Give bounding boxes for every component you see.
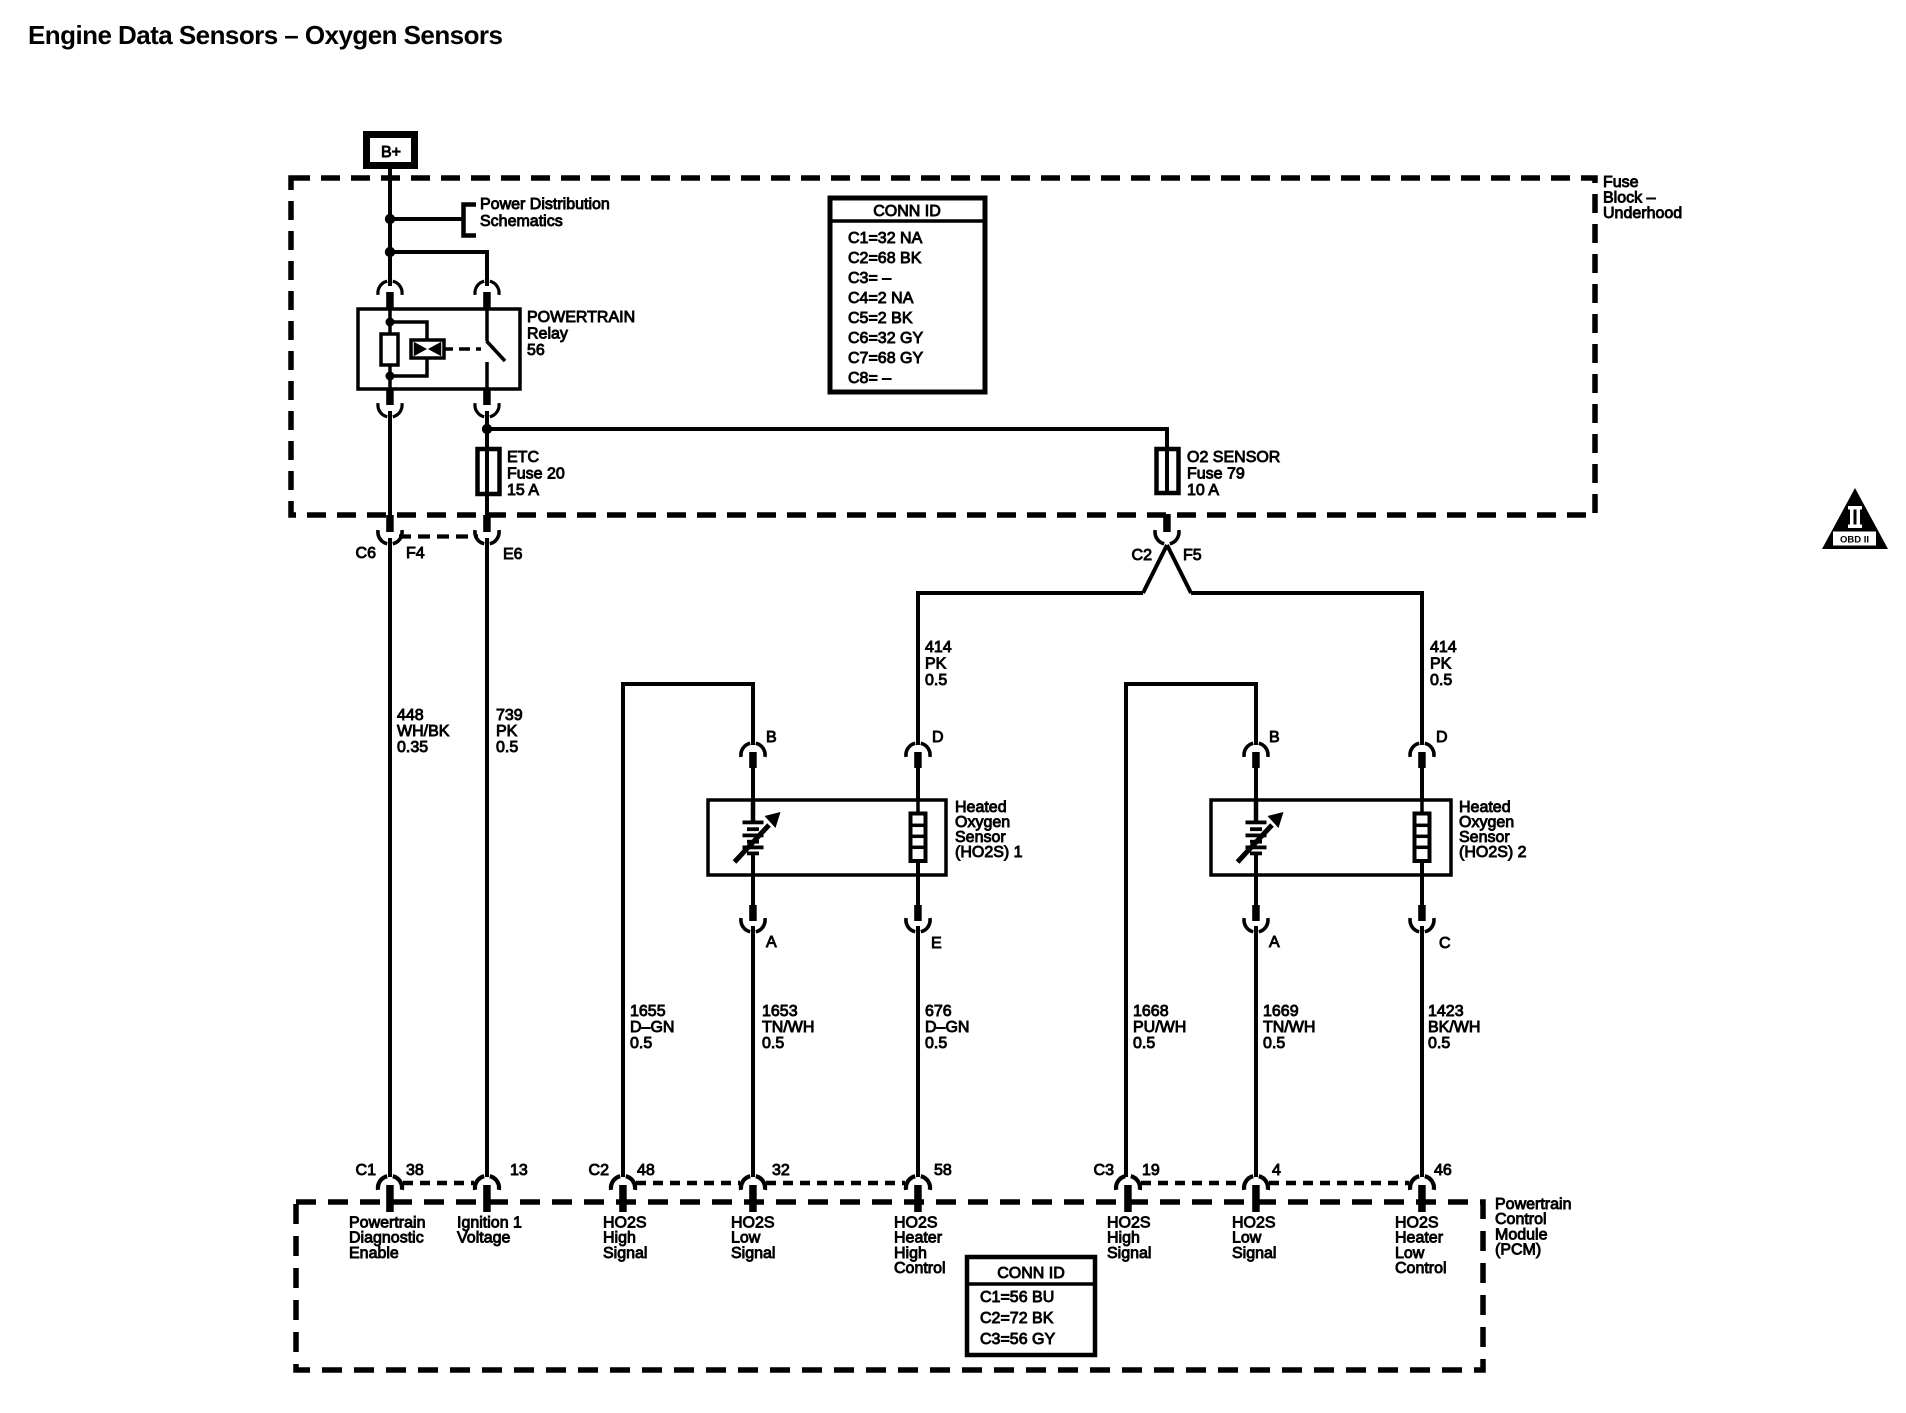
svg-text:C2=68 BK: C2=68 BK <box>848 250 922 267</box>
node relay coil bottom junction <box>386 372 395 381</box>
svg-text:C: C <box>1439 935 1451 952</box>
svg-text:Relay: Relay <box>527 326 568 343</box>
svg-text:Signal: Signal <box>1232 1245 1276 1262</box>
svg-text:(PCM): (PCM) <box>1495 1242 1541 1259</box>
in-line connector dashed link 48-32-58 <box>636 1181 740 1186</box>
wire relay coil output to connector C6 <box>388 411 392 517</box>
svg-text:0.5: 0.5 <box>1428 1035 1450 1052</box>
sensor Heated Oxygen Sensor HO2S2 box <box>1211 800 1451 875</box>
connector HO2S2 pin B <box>1244 743 1268 757</box>
svg-text:C3= –: C3= – <box>848 270 891 287</box>
connector HO2S1 pin A <box>751 875 755 907</box>
svg-text:C1=32 NA: C1=32 NA <box>848 230 923 247</box>
wire 414 PK to HO2S2 pin D <box>1191 593 1422 745</box>
connector HO2S1 pin B <box>741 743 765 757</box>
svg-text:1669: 1669 <box>1263 1003 1299 1020</box>
wire 414 PK to HO2S1 pin D <box>918 593 1143 745</box>
heater element HO2S1 <box>916 800 920 814</box>
svg-text:WH/BK: WH/BK <box>397 723 450 740</box>
table CONN ID fuse block underhood <box>830 198 985 392</box>
svg-text:0.5: 0.5 <box>1430 672 1452 689</box>
svg-text:PK: PK <box>496 723 518 740</box>
connector PCM pin 46 <box>1410 1176 1434 1190</box>
sensor element HO2S2 (variable voltage) <box>1254 800 1259 821</box>
svg-text:POWERTRAIN: POWERTRAIN <box>527 309 635 326</box>
svg-text:C2=72 BK: C2=72 BK <box>980 1310 1054 1327</box>
svg-text:1653: 1653 <box>762 1003 798 1020</box>
in-line connector dashed link C6-E6 <box>399 534 478 538</box>
connector HO2S2 pin D <box>1410 743 1434 757</box>
relay coil <box>411 340 444 358</box>
wire HO2S1 signal low to PCM <box>751 926 755 1177</box>
fuse block underhood dashed box <box>291 178 1595 515</box>
svg-text:C2: C2 <box>589 1162 610 1179</box>
svg-text:F5: F5 <box>1183 547 1202 564</box>
svg-text:Power Distribution: Power Distribution <box>480 196 610 213</box>
svg-text:Control: Control <box>1395 1260 1447 1277</box>
svg-text:38: 38 <box>406 1162 424 1179</box>
connector PCM pin 32 <box>741 1176 765 1190</box>
svg-text:E: E <box>931 935 942 952</box>
connector HO2S2 pin A <box>1254 875 1258 907</box>
svg-text:TN/WH: TN/WH <box>762 1019 814 1036</box>
table CONN ID PCM <box>967 1257 1095 1355</box>
svg-text:F4: F4 <box>406 545 425 562</box>
svg-text:A: A <box>1269 934 1280 951</box>
connector HO2S1 pin D <box>906 743 930 757</box>
svg-text:Engine Data Sensors – Oxygen S: Engine Data Sensors – Oxygen Sensors <box>28 20 502 50</box>
svg-text:C5=2 BK: C5=2 BK <box>848 310 913 327</box>
wire relay coil branch <box>388 310 392 334</box>
connector PCM pin 4 <box>1244 1176 1268 1190</box>
svg-text:Signal: Signal <box>603 1245 647 1262</box>
wire HO2S1 pin B branch <box>623 684 753 1177</box>
svg-text:B: B <box>1269 729 1280 746</box>
connector PCM pin 48 <box>611 1176 635 1190</box>
svg-text:414: 414 <box>925 639 952 656</box>
wire HO2S2 signal low to PCM <box>1254 926 1258 1177</box>
sensor element HO2S1 (variable voltage) <box>751 800 756 821</box>
node relay coil top junction <box>386 318 395 327</box>
svg-text:414: 414 <box>1430 639 1457 656</box>
svg-text:PK: PK <box>1430 656 1452 673</box>
svg-text:0.5: 0.5 <box>630 1035 652 1052</box>
svg-text:1655: 1655 <box>630 1003 666 1020</box>
connector E6 pin (ignition 1 voltage feed) <box>483 515 491 532</box>
connector PCM pin 58 <box>906 1176 930 1190</box>
svg-text:19: 19 <box>1142 1162 1160 1179</box>
svg-text:C4=2 NA: C4=2 NA <box>848 290 914 307</box>
svg-text:Fuse: Fuse <box>1603 174 1639 191</box>
bracket power distribution schematics <box>464 205 477 236</box>
svg-text:(HO2S) 2: (HO2S) 2 <box>1459 844 1527 861</box>
connector relay switch feed pin <box>475 281 499 295</box>
node junction power distribution tap <box>385 214 395 224</box>
svg-text:C6: C6 <box>356 545 377 562</box>
svg-text:1423: 1423 <box>1428 1003 1464 1020</box>
svg-text:PK: PK <box>925 656 947 673</box>
power symbol B+ <box>367 135 415 166</box>
fuse O2 SENSOR Fuse 79 10A <box>1165 429 1169 493</box>
svg-text:BK/WH: BK/WH <box>1428 1019 1480 1036</box>
icon OBD II <box>1822 488 1888 549</box>
connector PCM pin 38 <box>378 1176 402 1190</box>
svg-text:C1: C1 <box>356 1162 377 1179</box>
wire relay switch output / fuse feed <box>485 411 489 517</box>
relay switch contact <box>485 310 489 341</box>
svg-text:56: 56 <box>527 342 545 359</box>
svg-text:C2: C2 <box>1132 547 1153 564</box>
wire HO2S2 pin B branch <box>1126 684 1256 1177</box>
wire powertrain diagnostic enable to PCM <box>388 538 392 1177</box>
wire to O2 sensor fuse <box>487 429 1167 450</box>
powertrain control module dashed box <box>296 1202 1483 1370</box>
wire to power distribution bracket <box>390 217 462 221</box>
relay POWERTRAIN Relay 56 outline <box>358 309 520 389</box>
svg-text:Signal: Signal <box>1107 1245 1151 1262</box>
svg-text:B+: B+ <box>381 144 401 161</box>
svg-text:13: 13 <box>510 1162 528 1179</box>
connector HO2S1 pin E <box>916 875 920 907</box>
svg-text:Signal: Signal <box>731 1245 775 1262</box>
svg-text:676: 676 <box>925 1003 952 1020</box>
connector PCM pin 19 <box>1116 1176 1140 1190</box>
in-line connector dashed link 38-13 <box>403 1181 474 1186</box>
svg-text:Fuse 79: Fuse 79 <box>1187 466 1245 483</box>
connector PCM pin 13 <box>475 1176 499 1190</box>
connector relay switch output pin <box>483 388 491 405</box>
svg-text:C1=56 BU: C1=56 BU <box>980 1289 1054 1306</box>
svg-text:10 A: 10 A <box>1187 482 1219 499</box>
svg-text:D–GN: D–GN <box>630 1019 674 1036</box>
connector relay coil feed pin <box>378 281 402 295</box>
svg-text:739: 739 <box>496 707 523 724</box>
connector relay coil output pin <box>386 388 394 405</box>
svg-text:0.5: 0.5 <box>762 1035 784 1052</box>
svg-text:0.35: 0.35 <box>397 739 428 756</box>
svg-text:0.5: 0.5 <box>925 1035 947 1052</box>
svg-text:O2 SENSOR: O2 SENSOR <box>1187 449 1280 466</box>
svg-text:Control: Control <box>894 1260 946 1277</box>
node junction relay switch feed <box>385 247 395 257</box>
svg-text:448: 448 <box>397 707 424 724</box>
svg-text:1668: 1668 <box>1133 1003 1169 1020</box>
svg-text:ETC: ETC <box>507 449 539 466</box>
svg-text:C3: C3 <box>1094 1162 1115 1179</box>
svg-text:E6: E6 <box>503 546 523 563</box>
svg-text:(HO2S) 1: (HO2S) 1 <box>955 844 1023 861</box>
svg-text:Enable: Enable <box>349 1245 399 1262</box>
node junction fuse feed <box>482 424 492 434</box>
svg-text:Schematics: Schematics <box>480 213 563 230</box>
svg-text:C6=32 GY: C6=32 GY <box>848 330 923 347</box>
wire B+ feed down to relay coil pin <box>388 167 392 286</box>
in-line connector dashed link 19-4-46 <box>1141 1181 1243 1186</box>
svg-text:0.5: 0.5 <box>925 672 947 689</box>
svg-text:D–GN: D–GN <box>925 1019 969 1036</box>
svg-text:Voltage: Voltage <box>457 1230 510 1247</box>
svg-text:Fuse 20: Fuse 20 <box>507 466 565 483</box>
svg-text:0.5: 0.5 <box>496 739 518 756</box>
svg-text:A: A <box>766 934 777 951</box>
svg-text:48: 48 <box>637 1162 655 1179</box>
svg-text:D: D <box>1436 729 1448 746</box>
heater element HO2S2 <box>1420 800 1424 814</box>
svg-text:15 A: 15 A <box>507 482 539 499</box>
svg-text:32: 32 <box>772 1162 790 1179</box>
sensor Heated Oxygen Sensor HO2S1 box <box>708 800 946 875</box>
wire splice V to HO2S heaters <box>1143 545 1191 593</box>
svg-text:CONN ID: CONN ID <box>997 1265 1065 1282</box>
connector HO2S2 pin C <box>1420 875 1424 907</box>
fuse ETC Fuse 20 15A <box>485 450 489 494</box>
svg-text:Underhood: Underhood <box>1603 205 1682 222</box>
svg-text:0.5: 0.5 <box>1133 1035 1155 1052</box>
connector C6 F4 pin (powertrain diagnostic feed) <box>386 515 394 532</box>
svg-text:B: B <box>766 729 777 746</box>
connector C2 F5 pin (O2 fuse output) <box>1163 514 1171 532</box>
svg-text:TN/WH: TN/WH <box>1263 1019 1315 1036</box>
wire HO2S2 heater control to PCM <box>1420 926 1424 1177</box>
svg-text:D: D <box>932 729 944 746</box>
svg-text:C7=68 GY: C7=68 GY <box>848 350 923 367</box>
resistor relay suppression resistor <box>381 334 398 365</box>
relay armature dashed link <box>444 347 481 351</box>
svg-text:PU/WH: PU/WH <box>1133 1019 1186 1036</box>
svg-text:OBD II: OBD II <box>1840 535 1869 546</box>
svg-text:58: 58 <box>934 1162 952 1179</box>
wire HO2S1 heater control to PCM <box>916 926 920 1177</box>
svg-text:4: 4 <box>1272 1162 1281 1179</box>
svg-text:0.5: 0.5 <box>1263 1035 1285 1052</box>
svg-text:Block –: Block – <box>1603 190 1656 207</box>
svg-text:CONN ID: CONN ID <box>873 203 941 220</box>
svg-text:C8= –: C8= – <box>848 370 891 387</box>
svg-text:C3=56 GY: C3=56 GY <box>980 1331 1055 1348</box>
svg-text:46: 46 <box>1434 1162 1452 1179</box>
wire junction to relay switch pin <box>390 252 487 286</box>
wire ignition 1 voltage to PCM <box>485 538 489 1177</box>
